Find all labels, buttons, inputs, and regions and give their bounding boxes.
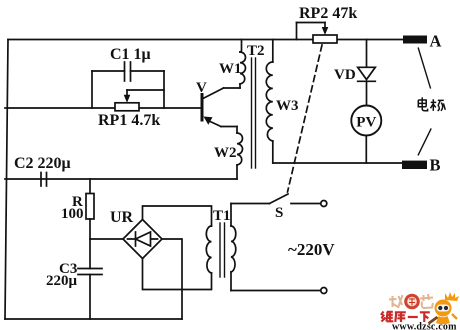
svg-text:S: S bbox=[275, 205, 283, 221]
capacitor C2 bbox=[41, 173, 47, 187]
wire bridge left to R/C3 node bbox=[90, 238, 123, 240]
svg-text:T2: T2 bbox=[247, 43, 265, 59]
potentiometer RP1 bbox=[115, 90, 164, 111]
wire left border bbox=[5, 40, 8, 320]
callout line to B bbox=[418, 129, 431, 155]
watermark red text 维库一下 bbox=[381, 312, 430, 323]
meter PV bbox=[351, 106, 381, 164]
transformer T1 bbox=[206, 204, 236, 291]
terminal A bbox=[403, 36, 427, 44]
svg-text:W2: W2 bbox=[214, 145, 237, 161]
wire C1 right leg bbox=[163, 71, 165, 108]
svg-text:~220V: ~220V bbox=[288, 240, 335, 259]
wire 220V bottom bbox=[231, 288, 327, 294]
svg-text:PV: PV bbox=[356, 115, 376, 131]
svg-text:100: 100 bbox=[61, 206, 84, 222]
wire W3 bottom to B bbox=[273, 162, 402, 164]
resistor R bbox=[86, 179, 94, 239]
wire top rail bbox=[8, 39, 403, 41]
transformer T2 core bbox=[252, 58, 256, 168]
dashed coupling line RP2 to S bbox=[288, 45, 323, 192]
svg-text:C2 220μ: C2 220μ bbox=[14, 155, 71, 172]
svg-text:W3: W3 bbox=[276, 98, 299, 114]
wire base rail bbox=[5, 107, 201, 109]
wire bridge top to T1 bbox=[143, 206, 212, 226]
watermark 找芯片 pale bbox=[389, 294, 433, 308]
label electrode 电极 bbox=[418, 97, 445, 111]
bridge rectifier UR bbox=[123, 220, 162, 259]
svg-text:W1: W1 bbox=[219, 61, 242, 77]
svg-text:220μ: 220μ bbox=[46, 273, 78, 289]
svg-text:B: B bbox=[430, 156, 441, 175]
wire C1 left leg bbox=[91, 71, 93, 108]
capacitor C3 bbox=[78, 239, 102, 319]
svg-text:T1: T1 bbox=[213, 208, 231, 224]
diode VD bbox=[358, 40, 376, 106]
svg-text:UR: UR bbox=[110, 209, 134, 226]
transformer T2 winding W1 bbox=[224, 40, 246, 89]
capacitor C1 bbox=[92, 62, 164, 81]
wire bridge right to bottom rail bbox=[162, 239, 182, 319]
svg-text:RP1 4.7k: RP1 4.7k bbox=[98, 112, 160, 129]
svg-text:VD: VD bbox=[334, 67, 356, 83]
watermark mascot bbox=[429, 292, 460, 324]
watermark red seal bbox=[404, 294, 420, 310]
svg-text:A: A bbox=[430, 32, 442, 51]
wire bottom rail bbox=[5, 318, 182, 320]
switch S bbox=[231, 194, 327, 207]
wire bridge bottom to T1 bbox=[143, 259, 212, 290]
callout line to A bbox=[418, 48, 430, 88]
transistor V bbox=[202, 88, 224, 127]
transformer T2 winding W2 bbox=[221, 127, 243, 180]
svg-text:V: V bbox=[196, 80, 207, 96]
potentiometer RP2 bbox=[297, 23, 338, 44]
svg-text:RP2 47k: RP2 47k bbox=[299, 5, 357, 22]
transformer T2 winding W3 bbox=[266, 40, 273, 164]
terminal B bbox=[402, 161, 427, 169]
wire C2/W2 line bbox=[5, 178, 237, 180]
svg-text:C1 1μ: C1 1μ bbox=[110, 46, 151, 63]
